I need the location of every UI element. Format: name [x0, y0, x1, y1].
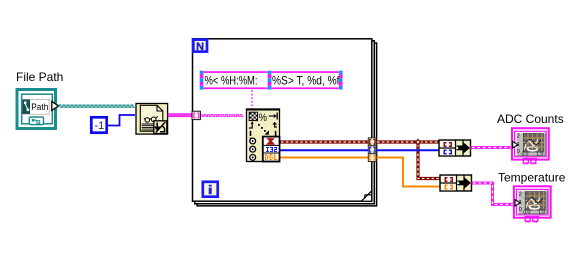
bottom adornment	[525, 217, 540, 223]
svg-text:2: 2	[519, 192, 522, 198]
wire DBL array (orange)	[280, 158, 441, 187]
string constant "%<%H:%M:"	[203, 71, 267, 89]
tunnel string in (left border)	[192, 111, 200, 119]
bundle 2 (timestamp + DBL)	[440, 175, 472, 191]
! marks	[250, 131, 252, 136]
input arrow	[515, 200, 520, 206]
wire -1 to reader (blue)	[108, 115, 135, 126]
output block	[263, 137, 280, 162]
indicator ADC Counts (XY graph)	[512, 128, 549, 164]
wire string beads (file to loop tunnel)	[168, 114, 193, 117]
path control connector glyph	[29, 117, 43, 125]
input arrow	[513, 141, 518, 148]
input terminals	[250, 138, 256, 160]
junction	[415, 139, 422, 146]
tunnel timestamp out	[368, 138, 376, 146]
diagonal dots + arrow	[258, 124, 260, 126]
loop count terminal N	[193, 40, 207, 53]
read-mode sub icon	[154, 121, 167, 134]
svg-text:0.0: 0.0	[523, 210, 530, 216]
tunnel I32 out	[368, 146, 376, 154]
svg-text:File Path: File Path	[16, 70, 63, 84]
svg-text:1.0: 1.0	[538, 210, 545, 216]
t glyphs	[249, 123, 252, 128]
timestamp glyph	[266, 138, 275, 145]
svg-text:%< %H:%M:: %< %H:%M:	[205, 74, 258, 88]
svg-text:-1: -1	[95, 120, 105, 132]
svg-text:Temperature: Temperature	[498, 171, 566, 185]
loop dog-ear	[362, 191, 372, 201]
bottom adornment	[523, 159, 538, 165]
tunnel DBL out	[368, 154, 376, 162]
wire cluster to Temperature (magenta dashed)	[472, 183, 515, 204]
file path control	[17, 90, 56, 129]
svg-text:0: 0	[517, 149, 520, 155]
wire format string (dotted, vertical)	[251, 90, 253, 109]
svg-text:Path: Path	[31, 102, 48, 113]
checkerboard	[249, 112, 257, 120]
Read From Text File VI	[136, 104, 168, 135]
svg-text:2: 2	[517, 133, 520, 139]
glasses glyph	[145, 118, 150, 123]
text lines	[142, 124, 155, 131]
svg-text:N: N	[196, 41, 204, 53]
string constant "%S>T, %d, %f"	[272, 71, 341, 89]
Scan From String node	[247, 109, 280, 162]
wire cluster to ADC Counts (magenta dashed)	[471, 146, 514, 149]
iteration terminal i	[203, 182, 218, 197]
svg-text:ADC Counts: ADC Counts	[497, 112, 564, 126]
indicator Temperature (XY graph)	[514, 186, 551, 222]
svg-text:%: %	[259, 112, 268, 124]
constant -1	[91, 117, 106, 132]
svg-text:1.0: 1.0	[536, 152, 543, 158]
svg-text:0: 0	[519, 207, 522, 213]
selection handle strips	[200, 71, 343, 90]
wire string zigzag (tunnel to scan)	[200, 115, 243, 117]
bundle 1 (timestamp + I32)	[439, 140, 471, 156]
path browse arrow	[52, 101, 59, 110]
svg-text:%S> T, %d, %f: %S> T, %d, %f	[272, 74, 340, 88]
svg-text:0.0: 0.0	[522, 152, 529, 158]
wire path (teal zigzag)	[59, 105, 135, 107]
wire timestamp array (dark red dashed)	[280, 142, 441, 179]
wire I32 array (blue)	[280, 149, 440, 151]
for loop frame (stacked)	[193, 39, 377, 206]
